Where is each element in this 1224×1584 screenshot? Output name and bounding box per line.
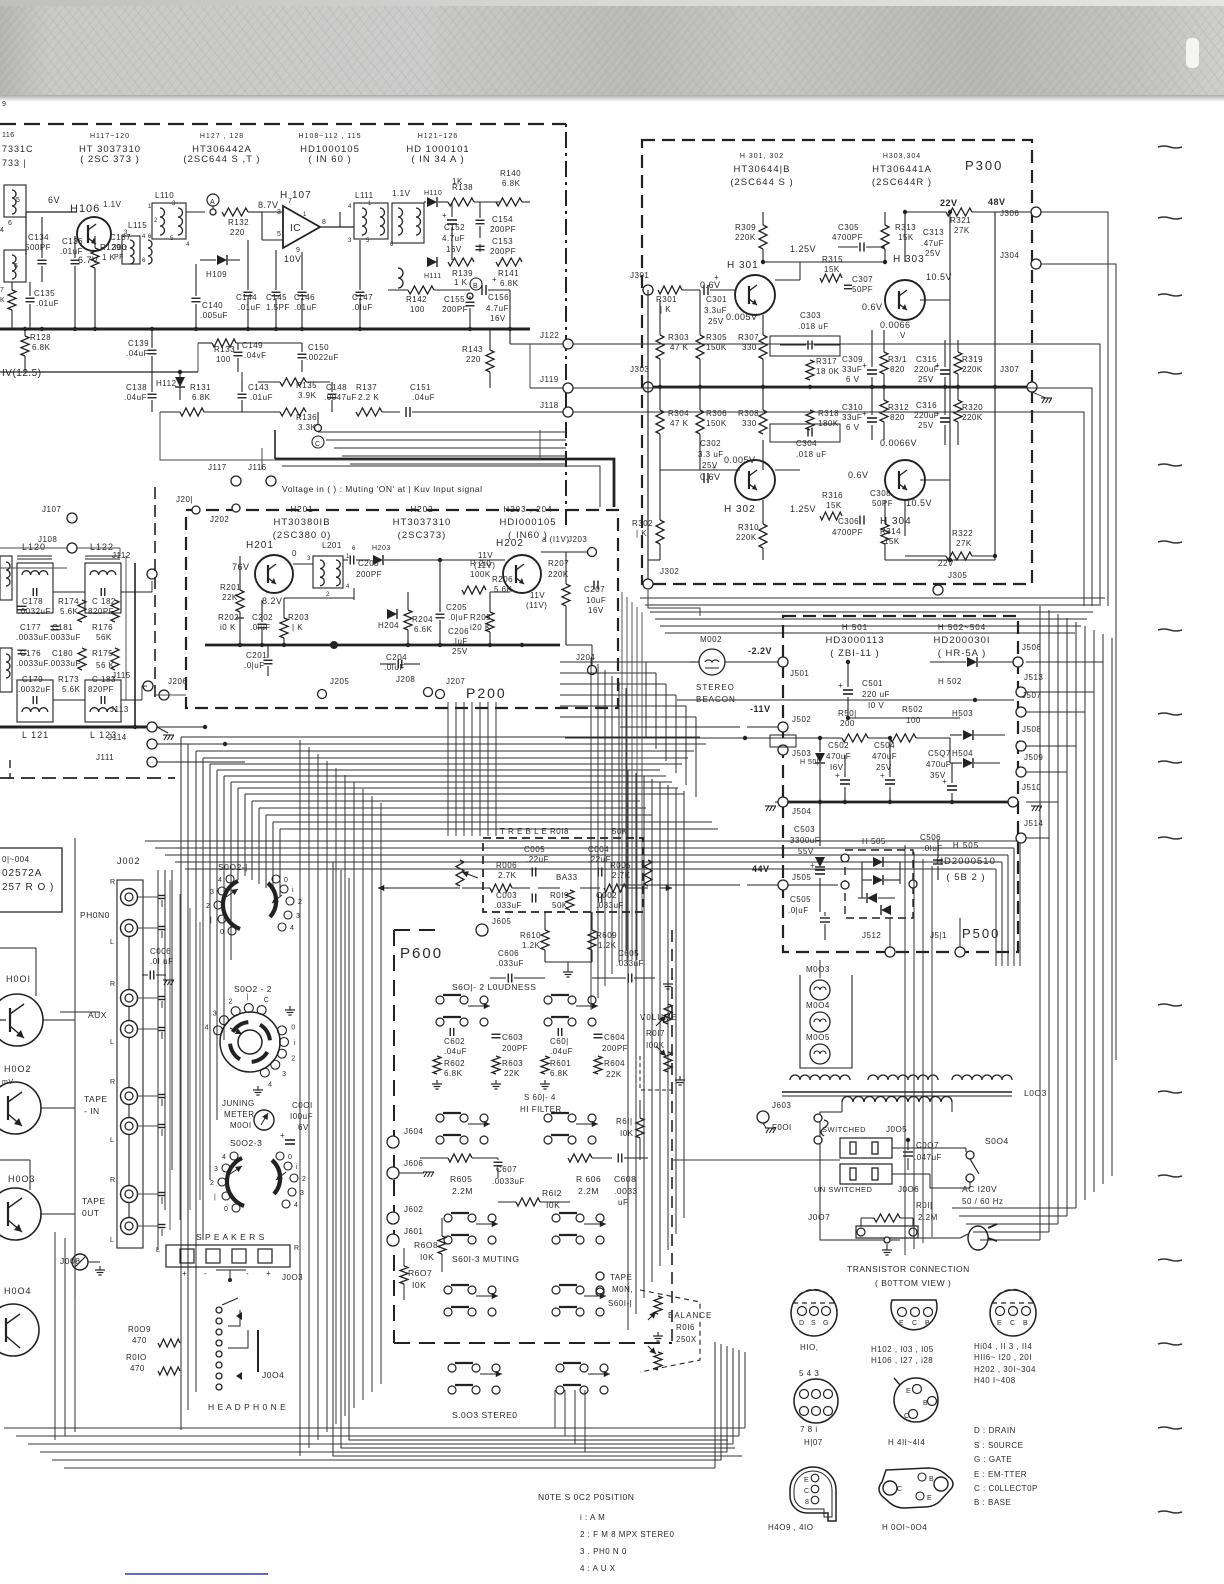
svg-text:733 |: 733 | xyxy=(2,158,27,168)
svg-text:H102 , I03 , I05: H102 , I03 , I05 xyxy=(871,1345,934,1354)
svg-text:J203: J203 xyxy=(568,535,587,544)
svg-text:220: 220 xyxy=(230,228,245,237)
main 6V rail (heavy) xyxy=(0,328,530,331)
svg-text:E: E xyxy=(899,1320,904,1327)
svg-text:11V: 11V xyxy=(478,551,493,560)
svg-text:56K: 56K xyxy=(96,633,112,642)
svg-text:C60|: C60| xyxy=(550,1037,569,1046)
svg-text:J509: J509 xyxy=(1024,753,1043,762)
svg-text:4: 4 xyxy=(0,227,4,234)
svg-text:25V: 25V xyxy=(708,317,724,326)
svg-text:C145: C145 xyxy=(266,293,287,302)
svg-text:1: 1 xyxy=(303,212,307,218)
verticals right of volume to balance xyxy=(904,845,906,1255)
wires from P300 J306 J304 to right bundle xyxy=(1041,212,1108,606)
svg-text:.0022uF: .0022uF xyxy=(306,353,339,362)
connector J503 xyxy=(778,745,788,755)
svg-text:R6I|: R6I| xyxy=(616,1117,633,1126)
package H101 (FET) xyxy=(791,1290,837,1336)
svg-text:15K: 15K xyxy=(826,501,842,510)
svg-text:R139: R139 xyxy=(452,269,473,278)
svg-text:25V: 25V xyxy=(918,421,934,430)
svg-text:C502: C502 xyxy=(828,741,849,750)
svg-text:100K: 100K xyxy=(470,570,491,579)
svg-text:1.2K: 1.2K xyxy=(522,941,541,950)
bus left staircase verticals xyxy=(180,737,182,1430)
svg-text:1.25V: 1.25V xyxy=(790,244,816,254)
svg-text:B : BASE: B : BASE xyxy=(974,1498,1011,1507)
svg-text:C313: C313 xyxy=(923,228,944,237)
svg-text:8.2V: 8.2V xyxy=(262,596,283,606)
heavy ground rail J504-J510 xyxy=(783,801,1013,804)
svg-text:8: 8 xyxy=(322,219,326,226)
svg-text:( ZBI-11 ): ( ZBI-11 ) xyxy=(830,648,879,659)
svg-text:L0O3: L0O3 xyxy=(1024,1088,1047,1098)
svg-text:.0032uF: .0032uF xyxy=(18,685,51,694)
svg-text:L: L xyxy=(110,1237,114,1244)
svg-text:220K: 220K xyxy=(962,365,983,374)
svg-text:H0OI: H0OI xyxy=(6,974,31,984)
svg-text:2: 2 xyxy=(291,1056,295,1063)
svg-text:15K: 15K xyxy=(898,233,914,242)
svg-text:.22uF: .22uF xyxy=(526,855,549,864)
svg-text:| K: | K xyxy=(636,529,647,538)
svg-text:27K: 27K xyxy=(956,539,972,548)
svg-text:.033uF: .033uF xyxy=(494,901,522,910)
svg-text:H106 , I27 , i28: H106 , I27 , i28 xyxy=(871,1356,933,1365)
svg-text:0UT: 0UT xyxy=(82,1208,100,1218)
svg-text:220: 220 xyxy=(466,355,481,364)
svg-text:+: + xyxy=(935,361,940,370)
svg-text:10.5V: 10.5V xyxy=(926,272,952,282)
svg-text:.0IuF: .0IuF xyxy=(352,303,373,312)
svg-text:.018 uF: .018 uF xyxy=(796,450,827,459)
svg-text:R176: R176 xyxy=(92,623,113,632)
svg-text:H117~120: H117~120 xyxy=(90,133,130,140)
svg-text:0: 0 xyxy=(284,877,288,884)
svg-text:H 302: H 302 xyxy=(724,504,756,515)
wires J122 J119 J118 to right bundle xyxy=(573,344,1100,606)
svg-text:R203: R203 xyxy=(288,613,309,622)
svg-text:4: 4 xyxy=(218,877,222,884)
svg-text:R602: R602 xyxy=(444,1059,465,1068)
elbow group left of P500 xyxy=(560,661,646,663)
svg-text:50PF: 50PF xyxy=(852,285,873,294)
svg-text:Hi04 , II 3 , II4: Hi04 , II 3 , II4 xyxy=(974,1342,1032,1351)
svg-text:2.7K: 2.7K xyxy=(612,871,631,880)
svg-text:J111: J111 xyxy=(96,753,114,762)
svg-text:0: 0 xyxy=(291,1024,295,1031)
svg-text:B: B xyxy=(925,1320,930,1327)
svg-text:100: 100 xyxy=(906,716,921,725)
svg-text:L110: L110 xyxy=(155,191,174,200)
svg-text:(2SC373): (2SC373) xyxy=(398,530,447,541)
svg-text:0.6V: 0.6V xyxy=(862,302,883,312)
coil lower left xyxy=(12,255,16,279)
P200 wires xyxy=(293,563,313,565)
svg-text:R0O9: R0O9 xyxy=(128,1325,151,1334)
svg-text:C151: C151 xyxy=(410,383,431,392)
svg-text:C003: C003 xyxy=(496,891,517,900)
resistor R302 1K xyxy=(656,520,664,544)
wires tone xyxy=(462,887,490,889)
svg-text:2 : F M 8 MPX STERE0: 2 : F M 8 MPX STERE0 xyxy=(580,1530,675,1539)
svg-text:J307: J307 xyxy=(1000,365,1019,374)
svg-text:+: + xyxy=(838,681,843,690)
svg-text:AUX: AUX xyxy=(88,1010,107,1020)
svg-text:0|~004: 0|~004 xyxy=(2,855,30,864)
blue pen mark xyxy=(125,1573,268,1575)
resistor R322 27K xyxy=(946,552,972,560)
resistor R317 180K xyxy=(806,360,814,380)
svg-text:|: | xyxy=(246,994,248,1001)
resistor R310 220K xyxy=(759,524,767,548)
svg-text:R0I6: R0I6 xyxy=(676,1323,695,1332)
resistor R321 27K xyxy=(946,208,972,216)
svg-text:J603: J603 xyxy=(772,1101,791,1110)
svg-text:S: S xyxy=(811,1320,816,1327)
unswitched outlets J006 xyxy=(840,1164,892,1184)
svg-text:6.8K: 6.8K xyxy=(444,1069,463,1078)
resistor R301 1K xyxy=(658,286,682,294)
headphone contacts xyxy=(216,1307,222,1313)
svg-text:.047uF: .047uF xyxy=(914,1153,942,1162)
svg-text:i: i xyxy=(294,1040,296,1047)
rectifier H505 dashed box xyxy=(845,850,913,918)
svg-text:J514: J514 xyxy=(1024,819,1043,828)
svg-text:4: 4 xyxy=(294,1202,298,1209)
svg-text:SWITCHED: SWITCHED xyxy=(822,1125,866,1134)
svg-text:C504: C504 xyxy=(874,741,895,750)
svg-text:BEACON: BEACON xyxy=(696,695,736,704)
svg-text:C136: C136 xyxy=(62,237,83,246)
svg-text:D: D xyxy=(799,1320,805,1327)
right bundle bottom elbows xyxy=(980,1239,1040,1241)
svg-text:C316: C316 xyxy=(916,401,937,410)
svg-text:L: L xyxy=(110,939,114,946)
svg-text:J206: J206 xyxy=(168,677,187,686)
svg-text:0.6V: 0.6V xyxy=(848,470,869,480)
svg-text:C153: C153 xyxy=(492,237,513,246)
heavy ground wire to J113 xyxy=(0,726,147,729)
svg-text:.0033uF: .0033uF xyxy=(48,659,81,668)
svg-text:R204: R204 xyxy=(412,615,433,624)
svg-text:4.7uF: 4.7uF xyxy=(486,304,509,313)
svg-text:T R E B L E R0I8: T R E B L E R0I8 xyxy=(500,827,569,836)
svg-text:H503: H503 xyxy=(952,709,973,718)
transistor H302 xyxy=(735,460,775,500)
capacitor C178 .0032uF xyxy=(32,588,34,596)
svg-text:+: + xyxy=(182,1269,187,1278)
connector J606 xyxy=(387,1167,399,1179)
svg-text:C154: C154 xyxy=(492,215,513,224)
svg-text:B: B xyxy=(923,1400,928,1407)
svg-text:5 4 3: 5 4 3 xyxy=(799,1369,819,1378)
svg-text:J601: J601 xyxy=(404,1227,423,1236)
svg-text:4: 4 xyxy=(186,242,190,248)
wires left column xyxy=(134,563,136,727)
wire frame around switch area xyxy=(74,838,76,1300)
svg-text:3: 3 xyxy=(348,238,352,244)
svg-text:1 K: 1 K xyxy=(454,278,468,287)
svg-text:H108~112 , 115: H108~112 , 115 xyxy=(299,133,362,140)
svg-text:C205: C205 xyxy=(446,603,467,612)
svg-text:3.3uF: 3.3uF xyxy=(704,306,727,315)
IF transformer L123 xyxy=(85,680,121,722)
svg-text:C206: C206 xyxy=(448,627,469,636)
svg-text:H203 , 204: H203 , 204 xyxy=(503,505,552,514)
svg-text:R173: R173 xyxy=(58,675,79,684)
svg-text:C308: C308 xyxy=(870,489,891,498)
svg-text:1K: 1K xyxy=(452,177,463,186)
svg-text:820: 820 xyxy=(890,413,905,422)
svg-text:2.2M: 2.2M xyxy=(918,1213,938,1222)
outer tuner dashed frame (second) xyxy=(154,487,156,700)
svg-text:C306: C306 xyxy=(838,517,859,526)
lamp wires to bus xyxy=(819,960,821,978)
svg-text:.033uF: .033uF xyxy=(496,959,524,968)
svg-text:33uF: 33uF xyxy=(842,413,862,422)
svg-text:a (I1V): a (I1V) xyxy=(542,535,570,544)
resistor R304 47K xyxy=(656,410,664,434)
svg-text:J108: J108 xyxy=(38,535,57,544)
svg-text:R305: R305 xyxy=(706,333,727,342)
svg-text:J606: J606 xyxy=(404,1159,423,1168)
svg-text:C604: C604 xyxy=(604,1033,625,1042)
P300 internal wiring xyxy=(763,261,885,263)
svg-text:C303: C303 xyxy=(800,311,821,320)
svg-text:4700PF: 4700PF xyxy=(832,233,863,242)
svg-text:10uF: 10uF xyxy=(586,596,606,605)
svg-text:22K: 22K xyxy=(504,1069,520,1078)
package H001~004 TO-3 xyxy=(879,1468,953,1508)
svg-text:7331C: 7331C xyxy=(2,144,34,154)
svg-text:H204: H204 xyxy=(378,621,399,630)
svg-text:C605: C605 xyxy=(618,949,639,958)
switch contacts xyxy=(552,1286,560,1294)
svg-text:.04uF: .04uF xyxy=(412,393,435,402)
svg-text:470uF: 470uF xyxy=(926,760,951,769)
svg-text:H201: H201 xyxy=(246,540,274,551)
svg-text:0.0066V: 0.0066V xyxy=(880,438,917,448)
upper distribution lines above switch area xyxy=(145,840,1020,842)
svg-text:H 4II~4I4: H 4II~4I4 xyxy=(888,1438,925,1447)
svg-text:2: 2 xyxy=(124,246,128,252)
svg-text:1: 1 xyxy=(148,204,152,210)
tape mon contacts xyxy=(596,1272,604,1280)
svg-text:I00K: I00K xyxy=(646,1041,665,1050)
test point C xyxy=(315,425,322,432)
svg-text:R604: R604 xyxy=(604,1059,625,1068)
svg-text:6: 6 xyxy=(352,546,356,552)
svg-text:C149: C149 xyxy=(242,341,263,350)
svg-text:M0N,: M0N, xyxy=(612,1285,633,1294)
extra deep verticals left of switches xyxy=(157,870,159,1250)
resistor R318 180K xyxy=(806,410,814,430)
svg-text:HD2000510: HD2000510 xyxy=(936,856,996,867)
svg-text:J513: J513 xyxy=(1024,673,1043,682)
IF transformer L121 xyxy=(17,680,53,722)
svg-text:R603: R603 xyxy=(502,1059,523,1068)
svg-text:+: + xyxy=(492,275,497,284)
svg-text:6.7V: 6.7V xyxy=(78,255,99,265)
svg-text:220K: 220K xyxy=(736,533,757,542)
svg-text:S0O2-|: S0O2-| xyxy=(218,862,248,872)
svg-text:S : S0URCE: S : S0URCE xyxy=(974,1441,1023,1450)
svg-text:TAPE: TAPE xyxy=(82,1196,106,1206)
svg-text:R0I7: R0I7 xyxy=(646,1029,665,1038)
svg-text:4: 4 xyxy=(346,584,350,590)
svg-text:3: 3 xyxy=(172,201,176,207)
svg-text:+: + xyxy=(935,409,940,418)
svg-text:PH0N0: PH0N0 xyxy=(80,910,110,920)
svg-text:C177: C177 xyxy=(20,623,41,632)
svg-text:C: C xyxy=(897,1486,903,1493)
svg-text:1.25V: 1.25V xyxy=(790,504,816,514)
resistor R306 150K xyxy=(696,410,704,434)
svg-text:+: + xyxy=(862,361,867,370)
svg-text:220 uF: 220 uF xyxy=(862,690,890,699)
svg-text:( 5B 2 ): ( 5B 2 ) xyxy=(946,872,985,883)
svg-text:BALANCE: BALANCE xyxy=(668,1311,712,1320)
svg-text:E : EM-TTER: E : EM-TTER xyxy=(974,1470,1027,1479)
svg-text:5: 5 xyxy=(277,231,281,238)
svg-text:3.3 uF: 3.3 uF xyxy=(698,450,724,459)
svg-text:HD200030I: HD200030I xyxy=(933,635,990,646)
svg-text:1.1V: 1.1V xyxy=(392,189,411,198)
svg-text:BA33: BA33 xyxy=(556,873,578,882)
svg-text:.0|uF: .0|uF xyxy=(788,906,809,915)
svg-text:15K: 15K xyxy=(824,265,840,274)
svg-text:0: 0 xyxy=(292,549,297,558)
J50x stubs to right bundle xyxy=(1026,661,1103,663)
svg-text:F0OI: F0OI xyxy=(772,1123,792,1132)
wires around jacks xyxy=(128,906,130,919)
wires below P300 horizontal bundle xyxy=(640,597,1105,599)
switch contacts xyxy=(556,1364,564,1372)
svg-text:.04vF: .04vF xyxy=(244,351,267,360)
svg-text:J5|1: J5|1 xyxy=(930,931,947,940)
svg-text:.005uF: .005uF xyxy=(200,311,228,320)
wire L110 to A xyxy=(186,211,205,213)
svg-text:J504: J504 xyxy=(792,807,811,816)
svg-text:S0O2 - 2: S0O2 - 2 xyxy=(234,984,272,994)
connector J605 xyxy=(476,924,488,936)
svg-text:C5Q7: C5Q7 xyxy=(928,749,951,758)
svg-text:R304: R304 xyxy=(668,409,689,418)
svg-text:TRANSISTOR C0NNECTION: TRANSISTOR C0NNECTION xyxy=(847,1264,970,1274)
wire H106 base xyxy=(26,211,77,213)
resistor R140 6.8K xyxy=(496,198,522,206)
svg-text:.018 uF: .018 uF xyxy=(798,322,829,331)
svg-text:5: 5 xyxy=(16,197,20,204)
svg-text:C156: C156 xyxy=(488,293,509,302)
svg-text:H111: H111 xyxy=(424,273,442,280)
svg-text:E: E xyxy=(997,1320,1002,1327)
svg-text:C143: C143 xyxy=(248,383,269,392)
svg-text:50PF: 50PF xyxy=(872,499,893,508)
svg-text:R50|: R50| xyxy=(838,709,857,718)
svg-text:C0O7: C0O7 xyxy=(916,1141,939,1150)
heavy feeder wire above P200 xyxy=(275,459,614,507)
svg-text:J002: J002 xyxy=(117,856,141,866)
svg-text:M0OI: M0OI xyxy=(230,1121,252,1130)
svg-text:H 301: H 301 xyxy=(727,260,759,271)
svg-text:i0 K: i0 K xyxy=(220,623,236,632)
svg-text:6: 6 xyxy=(8,220,12,227)
svg-text:C135: C135 xyxy=(34,289,55,298)
svg-text:470uF: 470uF xyxy=(872,752,897,761)
svg-text:G : GATE: G : GATE xyxy=(974,1455,1012,1464)
svg-text:R: R xyxy=(110,879,116,886)
svg-text:P200: P200 xyxy=(466,685,507,701)
svg-text:C505: C505 xyxy=(790,895,811,904)
jack small caps xyxy=(138,896,158,898)
svg-text:6.8K: 6.8K xyxy=(500,279,519,288)
svg-text:R0I|: R0I| xyxy=(916,1201,933,1210)
svg-text:6.8K: 6.8K xyxy=(192,393,211,402)
svg-text:(2SC380 0): (2SC380 0) xyxy=(273,530,332,541)
transformer primary winding xyxy=(842,1097,952,1103)
svg-text:C503: C503 xyxy=(794,825,815,834)
connector J504 xyxy=(778,797,788,807)
svg-text:R321: R321 xyxy=(950,216,971,225)
svg-text:10V: 10V xyxy=(284,254,302,264)
svg-text:(2SC644 S ,T ): (2SC644 S ,T ) xyxy=(183,154,260,165)
P200 block dashed frame xyxy=(186,510,618,708)
svg-text:J602: J602 xyxy=(404,1205,423,1214)
svg-text:J114: J114 xyxy=(108,733,127,742)
svg-text:330: 330 xyxy=(742,419,757,428)
svg-text:J113: J113 xyxy=(110,705,129,714)
resistor R138 1K xyxy=(448,198,474,206)
svg-text:R6O7: R6O7 xyxy=(408,1268,432,1278)
svg-text:i: i xyxy=(296,1164,298,1171)
transistor H304 xyxy=(885,460,925,500)
svg-text:H 301, 302: H 301, 302 xyxy=(740,153,784,160)
svg-text:i : A M: i : A M xyxy=(580,1513,605,1522)
svg-text:L201: L201 xyxy=(322,541,342,550)
svg-text:C608: C608 xyxy=(614,1174,636,1184)
svg-text:J208: J208 xyxy=(396,675,415,684)
svg-text:S P E A K E R S: S P E A K E R S xyxy=(196,1232,265,1242)
wires below P300 to P500 xyxy=(648,590,700,616)
diode H204 xyxy=(387,609,397,619)
svg-text:R609: R609 xyxy=(596,931,617,940)
svg-text:S.0O3 STERE0: S.0O3 STERE0 xyxy=(452,1410,518,1420)
svg-text:E: E xyxy=(804,1477,809,1484)
svg-text:E: E xyxy=(906,1388,911,1395)
svg-text:H40 I~408: H40 I~408 xyxy=(974,1376,1016,1385)
capacitor C307 50PF xyxy=(844,284,852,286)
svg-text:H4O9 , 4IO: H4O9 , 4IO xyxy=(768,1523,813,1532)
switch contacts xyxy=(436,996,444,1004)
svg-text:4.7uF: 4.7uF xyxy=(442,234,465,243)
svg-text:2: 2 xyxy=(302,1176,306,1183)
package H102,103,105 H106,127,128 xyxy=(891,1300,937,1330)
svg-text:V0LUME: V0LUME xyxy=(640,1013,678,1022)
svg-text:4: 4 xyxy=(268,1081,272,1088)
svg-text:J207: J207 xyxy=(446,677,465,686)
svg-text:470uF: 470uF xyxy=(826,752,851,761)
svg-text:( IN 34 A ): ( IN 34 A ) xyxy=(411,154,464,165)
svg-text:.0IuF: .0IuF xyxy=(922,844,943,853)
connector J502 xyxy=(778,722,788,732)
diode H203 xyxy=(373,555,383,565)
svg-text:R0IO: R0IO xyxy=(126,1353,147,1362)
svg-text:C139: C139 xyxy=(128,339,149,348)
svg-text:4700PF: 4700PF xyxy=(832,528,863,537)
